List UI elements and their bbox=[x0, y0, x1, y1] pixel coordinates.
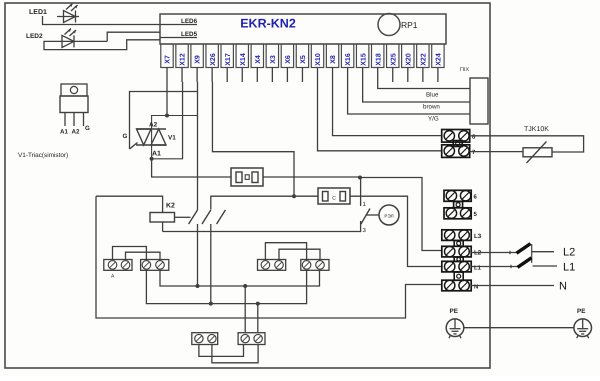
screw terminal L1 bbox=[442, 261, 471, 272]
wire node C to cutout C bbox=[294, 195, 318, 197]
svg-text:ПΙХ: ПΙХ bbox=[460, 67, 469, 73]
svg-text:A1: A1 bbox=[152, 151, 161, 158]
screw terminal 5 bbox=[444, 208, 471, 219]
svg-text:A1: A1 bbox=[60, 129, 68, 136]
label PE left bbox=[450, 308, 458, 315]
screw terminal L3 bbox=[442, 230, 471, 241]
LED2 diode symbol bbox=[48, 29, 107, 48]
wire X26 to node C bbox=[212, 82, 294, 196]
terminal X3 bbox=[266, 44, 278, 68]
triac V1 symbol bbox=[130, 129, 167, 149]
pin stem X16 bbox=[347, 67, 349, 82]
wire U-link outer bbox=[199, 345, 244, 357]
wire X16 Y/G bbox=[348, 82, 470, 114]
wire U-link inner bbox=[212, 345, 258, 363]
pin stem X18 bbox=[377, 67, 379, 82]
wire N rail to coil bbox=[96, 196, 163, 212]
terminal X25 bbox=[387, 44, 399, 68]
label L1 supply bbox=[563, 262, 575, 274]
label P1X bbox=[460, 67, 469, 73]
svg-text:X7: X7 bbox=[165, 55, 172, 64]
screw terminal L2 bbox=[442, 246, 471, 257]
wire blade to bulb bbox=[366, 214, 380, 216]
wire node C to contact 2 bbox=[211, 196, 294, 209]
label A1 bbox=[152, 151, 161, 158]
svg-text:K2: K2 bbox=[166, 203, 175, 210]
svg-text:Y/G: Y/G bbox=[428, 116, 439, 123]
pin stem X26 bbox=[211, 67, 213, 82]
link L2-L1 bbox=[454, 257, 463, 261]
svg-text:X17: X17 bbox=[225, 53, 232, 66]
wire bridge B1.1-B2.1 bbox=[265, 243, 306, 260]
node B junction bbox=[358, 176, 362, 180]
label A1 pin bbox=[60, 129, 68, 136]
pin stem X17 bbox=[226, 67, 228, 82]
svg-text:A2: A2 bbox=[72, 129, 80, 136]
label L2 small bbox=[474, 250, 482, 257]
svg-text:X8: X8 bbox=[330, 55, 337, 64]
LED1 diode symbol bbox=[57, 4, 79, 23]
svg-text:РЭЛ: РЭЛ bbox=[384, 214, 393, 219]
svg-text:N: N bbox=[559, 281, 567, 293]
svg-text:3: 3 bbox=[363, 227, 367, 234]
label TJK10K bbox=[524, 126, 549, 133]
svg-text:L1: L1 bbox=[563, 262, 575, 274]
svg-text:L2: L2 bbox=[563, 247, 575, 259]
label L1 small bbox=[474, 265, 482, 272]
svg-text:PE: PE bbox=[450, 308, 458, 315]
svg-text:C: C bbox=[332, 196, 336, 202]
wire X12 (triac box right edge) bbox=[182, 82, 184, 159]
label LED2 bbox=[26, 33, 43, 40]
screw terminal 6 bbox=[444, 190, 471, 201]
svg-text:X22: X22 bbox=[420, 53, 427, 66]
terminal X12 bbox=[176, 44, 188, 68]
terminal X4 bbox=[251, 44, 263, 68]
link L3-L2 bbox=[454, 241, 463, 247]
svg-text:Blue: Blue bbox=[426, 92, 439, 99]
svg-text:V1-Triac(simistor): V1-Triac(simistor) bbox=[18, 152, 68, 159]
wire L1 to breaker bbox=[471, 265, 518, 268]
pin stem X20 bbox=[407, 67, 409, 82]
terminal X26 bbox=[206, 44, 218, 68]
controller U1 EKR-KN2 body bbox=[160, 14, 446, 44]
svg-text:5: 5 bbox=[474, 211, 478, 218]
breaker pole L2 bbox=[517, 244, 531, 254]
wire X10 to screw 7 bbox=[318, 82, 442, 151]
svg-text:X18: X18 bbox=[375, 53, 382, 66]
wire bridge A1.2-A2.2 bbox=[126, 252, 161, 260]
pin stem X5 bbox=[301, 67, 303, 82]
label A bbox=[111, 274, 115, 280]
svg-text:X10: X10 bbox=[315, 53, 322, 66]
thermal cutout C bbox=[318, 188, 350, 204]
wire coil right lead bbox=[175, 216, 191, 218]
breaker pole L1 bbox=[518, 258, 532, 268]
terminal X9 bbox=[191, 44, 203, 68]
svg-text:A2: A2 bbox=[149, 122, 158, 129]
label N small bbox=[474, 283, 478, 290]
svg-text:brown: brown bbox=[423, 104, 440, 111]
label LED1 bbox=[29, 9, 47, 16]
svg-text:RP1: RP1 bbox=[401, 20, 418, 30]
svg-text:X3: X3 bbox=[270, 55, 277, 64]
wire coil lower lead bbox=[162, 222, 164, 232]
screw terminal 7 bbox=[442, 145, 470, 158]
wire A1 to fuse D bbox=[152, 159, 231, 177]
wire bridge A1.1-A2.1 bbox=[113, 247, 147, 261]
label contact 1 bbox=[363, 201, 367, 208]
label V1 bbox=[168, 135, 176, 142]
svg-text:G: G bbox=[123, 133, 128, 140]
svg-text:X6: X6 bbox=[285, 55, 292, 64]
wire screw8 to sensor bbox=[470, 136, 584, 152]
pin stem X7 bbox=[166, 67, 168, 82]
thermistor TJK10K bbox=[523, 142, 552, 164]
screw terminal N bbox=[442, 280, 471, 291]
pin stem X24 bbox=[437, 67, 439, 82]
terminal X5 bbox=[296, 44, 308, 68]
wire line2 A2.1-B2.1 bbox=[146, 270, 306, 304]
link 8-7 bbox=[453, 141, 462, 147]
wire contact 1 stub bbox=[360, 178, 362, 207]
terminal block C2-pair bbox=[238, 333, 265, 345]
label brown bbox=[423, 104, 440, 111]
wire cutout C to L1 bbox=[350, 196, 442, 266]
relay coil K2 bbox=[150, 213, 175, 223]
svg-text:LED1: LED1 bbox=[29, 9, 47, 16]
svg-text:X15: X15 bbox=[360, 53, 367, 66]
wire node B to L2 feed bbox=[360, 178, 442, 251]
thermostat switch blade bbox=[361, 209, 370, 225]
terminal X14 bbox=[236, 44, 248, 68]
wire contact2 lower bbox=[210, 224, 212, 304]
label L2 supply bbox=[563, 247, 575, 259]
wire breaker L1 out bbox=[533, 265, 558, 267]
terminal X24 bbox=[432, 44, 444, 68]
svg-text:TJK10K: TJK10K bbox=[524, 126, 549, 133]
ground PE right bbox=[574, 319, 592, 338]
pin stem X9 bbox=[196, 67, 198, 82]
pin stem X12 bbox=[181, 67, 183, 82]
wire X7 to triac A2 node bbox=[166, 82, 168, 116]
svg-text:X16: X16 bbox=[345, 53, 352, 66]
thermostat bulb bbox=[379, 205, 399, 225]
svg-text:X9: X9 bbox=[195, 55, 202, 64]
terminal block A2-pair bbox=[141, 260, 169, 271]
terminal X18 bbox=[372, 44, 384, 68]
pin stem X25 bbox=[392, 67, 394, 82]
node C junction bbox=[292, 194, 296, 198]
svg-text:X25: X25 bbox=[390, 53, 397, 66]
terminal X6 bbox=[281, 44, 293, 68]
terminal X8 bbox=[326, 44, 338, 68]
svg-text:6: 6 bbox=[474, 194, 478, 201]
label LED6 bbox=[181, 18, 198, 25]
terminal block C1-pair bbox=[192, 333, 218, 345]
node contact2-line2 bbox=[209, 302, 213, 306]
svg-text:N: N bbox=[474, 283, 478, 290]
triac outline box bbox=[152, 116, 198, 159]
screw terminal 8 bbox=[442, 130, 470, 143]
wire PE bond bbox=[464, 327, 574, 329]
wire contact 3 to N rail bbox=[163, 221, 361, 232]
wire bridge B1.2-B2.2 bbox=[279, 249, 320, 260]
label Y/G bbox=[428, 116, 439, 123]
svg-text:PE: PE bbox=[577, 308, 585, 315]
wire fuse D to node B bbox=[263, 176, 360, 178]
svg-text:L3: L3 bbox=[474, 233, 482, 240]
wire LED2 cathode to block bbox=[107, 32, 160, 41]
wire N loop bbox=[96, 196, 442, 318]
label G pin bbox=[85, 125, 90, 132]
terminal block A1-pair bbox=[104, 260, 132, 271]
ground PE left bbox=[446, 319, 464, 338]
wire LED5 stub bbox=[160, 37, 197, 39]
svg-text:X4: X4 bbox=[255, 55, 262, 64]
svg-text:X14: X14 bbox=[240, 53, 247, 66]
label G gate bbox=[123, 133, 128, 140]
wire gate branch bbox=[130, 92, 198, 150]
svg-text:X26: X26 bbox=[210, 53, 217, 66]
label A2 bbox=[149, 122, 158, 129]
thermal fuse D bbox=[231, 168, 263, 186]
node contact1-line1 bbox=[196, 284, 200, 288]
terminal X22 bbox=[417, 44, 429, 68]
node line2 tap bbox=[256, 302, 260, 306]
terminal X15 bbox=[356, 44, 368, 68]
pin stem X15 bbox=[362, 67, 364, 82]
wire X18 Blue bbox=[378, 82, 470, 89]
terminal X20 bbox=[402, 44, 414, 68]
label Blue bbox=[426, 92, 439, 99]
connector P1X box bbox=[470, 78, 488, 124]
K2 contact 2 blade bbox=[202, 210, 211, 224]
wire N out bbox=[471, 285, 554, 287]
link 6-5 bbox=[454, 202, 463, 208]
pin stem X22 bbox=[422, 67, 424, 82]
svg-text:EKR-KN2: EKR-KN2 bbox=[240, 17, 296, 31]
node A1 junction bbox=[150, 157, 154, 161]
svg-text:8: 8 bbox=[472, 134, 476, 141]
svg-text:A: A bbox=[111, 274, 115, 280]
label N supply bbox=[559, 281, 567, 293]
enclosure frame bbox=[5, 3, 490, 368]
K2 pole mark bbox=[217, 210, 226, 224]
label EKR-KN2 bbox=[240, 17, 296, 31]
label 7 bbox=[472, 149, 476, 156]
wire contact1 lower bbox=[197, 224, 199, 286]
terminal block B1-pair bbox=[258, 260, 286, 271]
label 8 bbox=[472, 134, 476, 141]
wire tap to bottom block2 screw2 bbox=[257, 304, 259, 333]
label RP1 bbox=[401, 20, 418, 30]
wire screw7 to sensor bbox=[470, 151, 523, 153]
breaker link bar bbox=[531, 244, 533, 263]
svg-text:1: 1 bbox=[363, 201, 367, 208]
svg-text:7: 7 bbox=[472, 149, 476, 156]
wire LED1 to LED6 input bbox=[43, 16, 198, 25]
potentiometer RP1 bbox=[378, 14, 400, 36]
svg-text:G: G bbox=[85, 125, 90, 132]
pin stem X4 bbox=[256, 67, 258, 82]
wire tap to bottom block2 screw1 bbox=[244, 286, 246, 333]
wire line1 A2.2-B2.2 bbox=[160, 270, 320, 286]
pin stem X10 bbox=[317, 67, 319, 82]
terminal X16 bbox=[341, 44, 353, 68]
label contact 3 bbox=[363, 227, 367, 234]
wire LED2 anode loop to block bbox=[44, 40, 160, 50]
pin stem X8 bbox=[332, 67, 334, 82]
svg-text:X20: X20 bbox=[405, 53, 412, 66]
link L1-N bbox=[454, 272, 463, 280]
terminal block B2-pair bbox=[301, 260, 329, 271]
pin stem X3 bbox=[271, 67, 273, 82]
svg-text:X5: X5 bbox=[300, 55, 307, 64]
label K2 bbox=[166, 203, 175, 210]
node A2 junction bbox=[165, 114, 169, 118]
label 5 bbox=[474, 211, 478, 218]
svg-text:LED2: LED2 bbox=[26, 33, 43, 40]
label LED5 bbox=[181, 31, 198, 38]
pin stem X6 bbox=[286, 67, 288, 82]
package V1 TO-220 drawing bbox=[60, 84, 88, 126]
svg-text:L1: L1 bbox=[474, 265, 482, 272]
node line1 tap bbox=[243, 284, 247, 288]
label V1-Triac(simistor) bbox=[18, 152, 68, 159]
terminal X17 bbox=[221, 44, 233, 68]
label A2 pin bbox=[72, 129, 80, 136]
svg-text:X12: X12 bbox=[180, 53, 187, 66]
svg-text:X24: X24 bbox=[436, 53, 443, 66]
wire L2 to breaker bbox=[471, 251, 517, 254]
terminal X10 bbox=[311, 44, 323, 68]
K2 contact 1 blade bbox=[189, 210, 198, 224]
svg-text:V1: V1 bbox=[168, 135, 176, 142]
label PE right bbox=[577, 308, 585, 315]
terminal X7 bbox=[161, 44, 173, 68]
wire breaker L2 out bbox=[532, 251, 554, 253]
wire X15 brown bbox=[363, 82, 470, 102]
label 6 bbox=[474, 194, 478, 201]
wire X9 down to K2 contact bbox=[197, 82, 199, 210]
label L3 small bbox=[474, 233, 482, 240]
wire X8 to screw 8 bbox=[333, 82, 442, 136]
pin stem X14 bbox=[241, 67, 243, 82]
